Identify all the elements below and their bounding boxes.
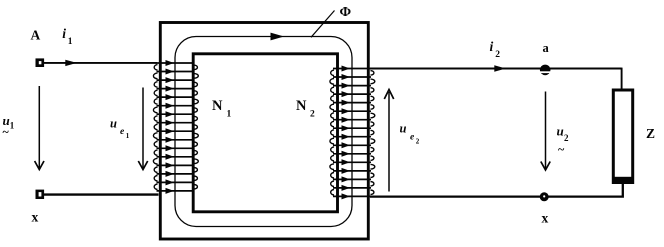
svg-text:Φ: Φ: [340, 5, 352, 20]
svg-text:u: u: [400, 122, 407, 136]
svg-text:i: i: [62, 26, 66, 41]
svg-text:~: ~: [3, 125, 10, 139]
svg-text:2: 2: [310, 110, 315, 120]
wire: load bottom down and left to secondary: [370, 183, 623, 197]
svg-text:u: u: [110, 117, 117, 131]
svg-text:Z: Z: [646, 126, 655, 141]
transformer core inner boundary (window): [193, 54, 337, 212]
svg-text:1: 1: [10, 120, 15, 130]
svg-text:x: x: [542, 211, 549, 226]
svg-text:i: i: [490, 39, 494, 54]
svg-text:A: A: [31, 28, 41, 43]
svg-text:1: 1: [68, 37, 73, 47]
svg-text:2: 2: [416, 138, 420, 146]
wire: secondary top to load corner: [370, 68, 622, 70]
transformer core outer boundary: [160, 23, 368, 240]
secondary winding N2: [330, 66, 375, 200]
svg-text:N: N: [212, 98, 223, 114]
terminal x (secondary bottom): [540, 192, 549, 201]
primary winding N1: [153, 60, 198, 194]
svg-text:a: a: [543, 41, 550, 55]
voltage arrow u2: [541, 92, 550, 171]
flux label pointer line: [311, 11, 335, 38]
voltage arrow ue2 (induced EMF secondary): [384, 90, 393, 192]
svg-text:~: ~: [558, 142, 565, 156]
wire: primary bottom to terminal x: [44, 193, 159, 195]
svg-text:2: 2: [495, 50, 500, 60]
terminal a (secondary top): [539, 65, 551, 76]
current arrow i1: [65, 60, 77, 66]
wire: corner down to load Z: [621, 68, 623, 90]
svg-text:N: N: [296, 98, 307, 114]
current arrow i2: [494, 65, 506, 71]
flux direction arrowhead: [271, 33, 285, 41]
svg-text:2: 2: [564, 133, 569, 143]
flux line (magnetic flux path): [175, 37, 352, 227]
svg-text:x: x: [32, 210, 39, 225]
voltage arrow ue1 (induced EMF primary): [138, 88, 147, 170]
svg-text:u: u: [557, 123, 564, 138]
svg-text:1: 1: [227, 110, 232, 120]
load Z: [612, 90, 634, 183]
terminal x (primary bottom): [36, 190, 45, 199]
terminal A (primary top): [36, 58, 45, 67]
voltage arrow u1: [35, 86, 44, 170]
svg-text:1: 1: [126, 132, 130, 140]
wire: terminal A to primary winding: [44, 62, 157, 64]
